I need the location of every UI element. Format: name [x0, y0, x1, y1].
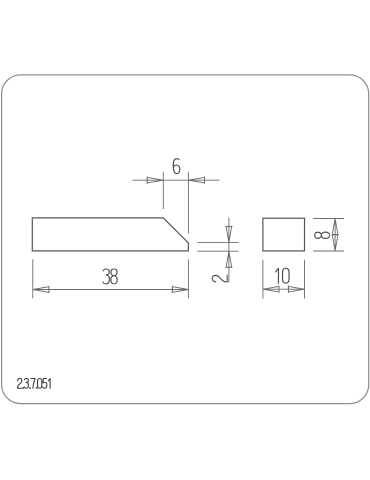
dim 38 arrowhead right [172, 286, 188, 293]
dim 8 arrowhead bottom [332, 235, 338, 251]
dim 2 extension line bottom [197, 250, 238, 252]
dim 38 dimension line [33, 289, 189, 291]
dim 6 extension line left [162, 172, 164, 209]
part end view outline [263, 218, 305, 251]
dim 6 value label [173, 159, 180, 174]
dim 6 arrowhead right [188, 177, 204, 184]
part side view outline [32, 218, 188, 251]
card frame [2, 75, 369, 404]
dim 6 dimension line [132, 179, 219, 181]
drawing number label 2.3.7.051 [18, 379, 51, 389]
dim 38 extension line left [32, 259, 34, 298]
dim 10 dimension line [263, 288, 305, 290]
dim 38 value label [103, 269, 117, 284]
dim 2 dimension line [228, 218, 230, 283]
dim 6 arrowhead left [147, 177, 163, 184]
dim 38 extension line right [187, 259, 189, 298]
dim 10 extension line left [262, 260, 264, 299]
dim 8 dimension line [334, 219, 336, 252]
dim 2 value label [212, 275, 227, 282]
dim 10 arrowhead right [288, 286, 304, 293]
dim 8 value label [315, 232, 330, 238]
dim 6 extension line right [187, 172, 189, 234]
dim 2 extension line top [197, 242, 238, 244]
dim 8 arrowhead top [332, 219, 339, 235]
dim 2 arrowhead top [225, 227, 232, 243]
dim 10 arrowhead left [263, 286, 279, 293]
dim 38 arrowhead left [33, 286, 49, 293]
dim 10 value label [276, 268, 290, 283]
dim 2 arrowhead bottom [225, 251, 232, 267]
dim 8 extension line top [313, 218, 344, 220]
dim 8 extension line bottom [313, 250, 344, 252]
dim 10 extension line right [304, 260, 306, 299]
